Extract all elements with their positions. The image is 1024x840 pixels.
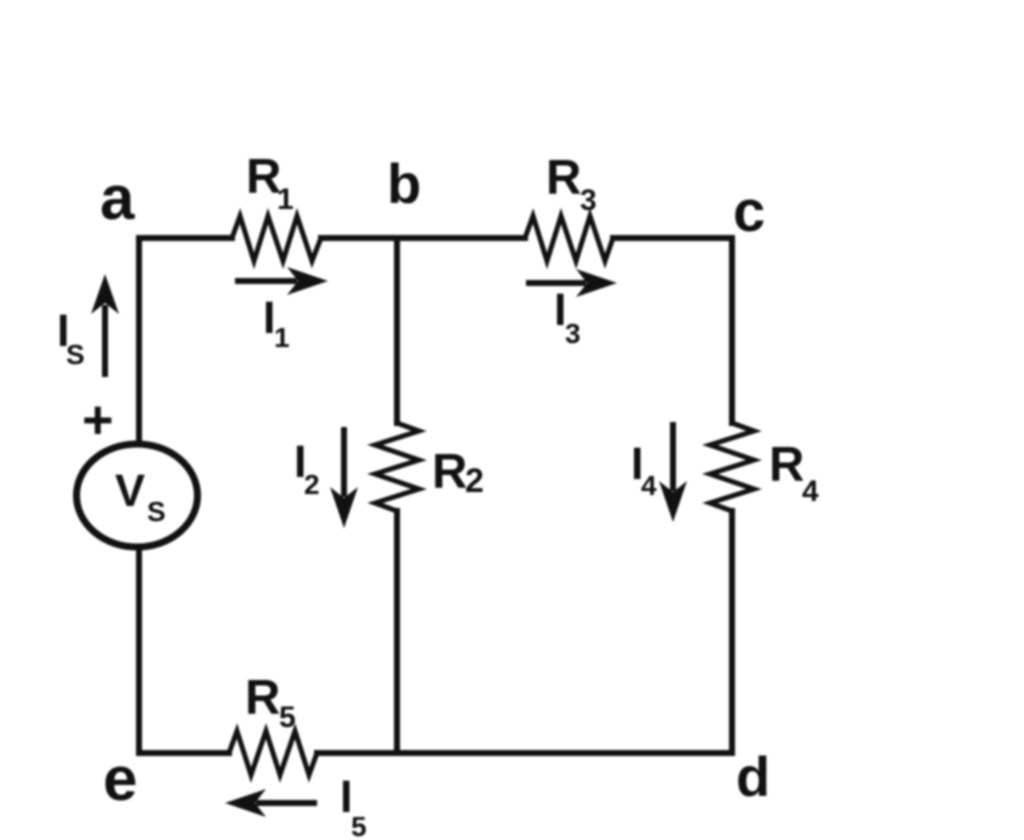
wire R4 down to d (right vertical lower) xyxy=(729,511,735,753)
svg-text:1: 1 xyxy=(277,183,294,216)
svg-text:+: + xyxy=(82,390,114,450)
svg-text:2: 2 xyxy=(465,462,484,500)
svg-text:2: 2 xyxy=(304,469,320,500)
current arrow I5 (left, under R5) xyxy=(225,789,317,817)
current arrow I2 (down, left of R2) xyxy=(330,427,358,528)
wire R5 to d (bottom right horizontal) xyxy=(317,750,732,756)
svg-text:V: V xyxy=(115,465,145,516)
svg-text:4: 4 xyxy=(802,475,819,508)
current arrow I4 (down, left of R4) xyxy=(659,422,687,522)
wire R1 to b to R3 (top middle horizontal) xyxy=(321,235,525,241)
svg-text:S: S xyxy=(66,339,85,370)
svg-text:S: S xyxy=(147,496,166,527)
svg-text:R: R xyxy=(432,445,467,499)
svg-text:4: 4 xyxy=(641,470,657,501)
wire R2 down to bottom node (middle vertical lower) xyxy=(394,511,400,753)
resistor R2 xyxy=(375,423,419,511)
wire R3 to c (top right horizontal) xyxy=(613,235,732,241)
current arrow I3 (right, under R3) xyxy=(526,269,617,297)
wire c down to R4 (right vertical upper) xyxy=(729,238,735,423)
wire a to R1 (top left horizontal) xyxy=(139,235,232,241)
wire b down to R2 (middle vertical upper) xyxy=(394,238,400,423)
wire Vs to e (left vertical lower) xyxy=(136,548,142,753)
svg-text:R: R xyxy=(546,151,581,205)
voltage source VS circle xyxy=(77,444,198,547)
svg-text:5: 5 xyxy=(279,701,296,734)
svg-text:5: 5 xyxy=(351,811,367,840)
svg-text:b: b xyxy=(387,152,421,215)
svg-text:3: 3 xyxy=(580,184,597,217)
svg-text:c: c xyxy=(733,179,765,244)
resistor R4 xyxy=(710,423,754,511)
svg-text:1: 1 xyxy=(274,322,290,353)
current arrow I1 (right, under R1) xyxy=(235,267,328,295)
wire e to R5 (bottom left horizontal) xyxy=(139,750,229,756)
current arrow IS (up, on left branch) xyxy=(91,274,119,377)
svg-text:e: e xyxy=(103,745,137,814)
resistor R5 xyxy=(229,731,317,775)
svg-text:3: 3 xyxy=(565,318,581,349)
svg-text:d: d xyxy=(736,745,770,808)
svg-text:R: R xyxy=(245,671,280,725)
resistor R3 xyxy=(525,216,613,261)
svg-text:R: R xyxy=(769,438,804,492)
resistor R1 xyxy=(232,216,321,261)
wire a down to Vs plus terminal (left vertical upper) xyxy=(136,238,142,442)
svg-text:a: a xyxy=(100,164,135,233)
